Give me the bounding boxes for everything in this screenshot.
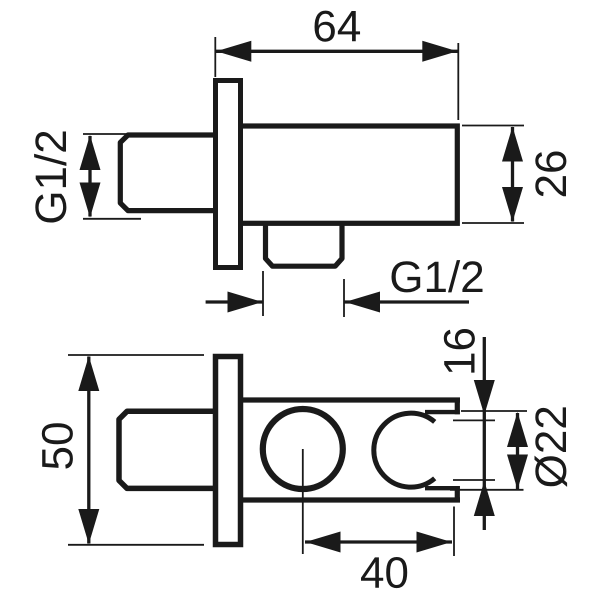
dimension 26: extension line top (462, 125, 524, 127)
body (top view): right edge lower segment (455, 486, 460, 502)
dimension 40: left arrowhead (306, 532, 341, 553)
body (top view): right edge upper segment (455, 398, 460, 414)
dimension G1/2 left: dimension line (88, 136, 91, 217)
dimension G1/2 bottom: right arrowhead (345, 292, 380, 313)
dimension 40: label (361, 557, 407, 588)
dimension 50: extension line bottom (68, 544, 204, 546)
dimension 26: up arrowhead (502, 127, 523, 162)
dimension 64: extension line left (214, 37, 216, 77)
dimension 40: dimension line (305, 540, 452, 543)
dimension G1/2 bottom: left dimension line (206, 300, 263, 303)
dimension 40: extension line right (453, 507, 455, 557)
holder bottom prong (425, 486, 460, 490)
dimension 26: extension line bottom (462, 222, 524, 224)
dimension O22: extension line inner bottom (453, 479, 495, 481)
dimension O22: extension line inner top (453, 419, 495, 421)
dimension G1/2 bottom: extension line right (343, 279, 345, 317)
holder top prong (425, 410, 460, 414)
centerline of outlet circle (302, 449, 304, 554)
dimension 26: dimension line (511, 127, 514, 222)
wall plate (top view) (216, 357, 241, 545)
dimension 50: down arrowhead (78, 509, 99, 544)
dimension G1/2 left: extension line bottom (83, 218, 141, 220)
dimension 64: extension line right (457, 43, 459, 120)
dimension 50: label (rotated) (42, 423, 73, 468)
body (top view): top edge (240, 397, 460, 402)
dimension G1/2 bottom: label (392, 260, 483, 292)
dimension O22: label (rotated) (535, 407, 568, 487)
wall plate (side view) (216, 81, 241, 268)
dimension G1/2 left: up arrowhead (80, 135, 101, 170)
dimension G1/2 bottom: right dimension line (345, 300, 470, 303)
dimension 16: up arrowhead (474, 481, 495, 516)
body (side view) (228, 126, 457, 223)
inlet connector (top view, left) (119, 411, 218, 488)
dimension O22: dimension line (516, 413, 519, 489)
dimension 64: label (315, 11, 361, 42)
body (top view): bottom edge (240, 497, 460, 502)
dimension G1/2 left: extension line top (83, 133, 140, 135)
dimension 64: left arrowhead (216, 41, 251, 62)
dimension 64: dimension line (215, 50, 458, 53)
dimension 16: dimension line (483, 337, 486, 530)
dimension 16: down arrowhead (474, 380, 495, 415)
inlet connector G1/2 (side view, left) (120, 135, 218, 211)
dimension 50: dimension line (87, 357, 90, 544)
dimension G1/2 bottom: extension line left (262, 271, 264, 316)
dimension O22: extension line outer top (461, 410, 527, 412)
dimension 50: up arrowhead (78, 356, 99, 391)
dimension O22: down arrowhead (507, 455, 528, 490)
dimension 64: right arrowhead (422, 41, 457, 62)
outlet circle (top view) (263, 409, 343, 489)
dimension 26: down arrowhead (502, 187, 523, 222)
dimension 26: label (rotated) (535, 151, 566, 196)
outlet stub (side view, below body) (266, 220, 343, 266)
dimension 16: label (rotated) (444, 329, 475, 373)
dimension O22: extension line outer bottom (450, 489, 524, 491)
holder C-ring arc (top view) (374, 413, 435, 487)
dimension 40: right arrowhead (417, 532, 452, 553)
dimension G1/2 left: label (rotated) (34, 132, 66, 223)
dimension G1/2 bottom: left arrowhead (228, 292, 263, 313)
dimension G1/2 left: down arrowhead (80, 183, 101, 218)
dimension 50: extension line top (68, 354, 204, 356)
dimension O22: up arrowhead (507, 412, 528, 447)
